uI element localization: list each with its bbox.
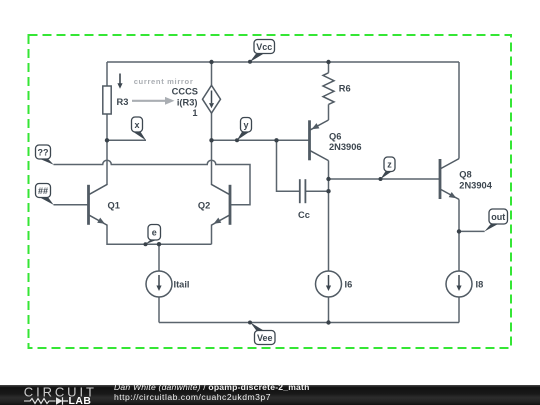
wire Q8 emitter down to I8 — [458, 199, 460, 271]
wire R3 top lead — [106, 62, 108, 86]
wire Q6 collector down to I6 — [328, 161, 330, 271]
junction Vcc flag attach — [248, 60, 252, 64]
wire Q1 collector to node x — [106, 140, 108, 184]
node flag z — [380, 157, 395, 179]
svg-text:LAB: LAB — [69, 396, 92, 405]
svg-text:CCCS: CCCS — [172, 87, 198, 97]
wire Vee rail — [159, 322, 459, 324]
svg-text:Cc: Cc — [298, 210, 310, 220]
annotation arrow current mirror — [132, 97, 175, 105]
wire I8 bottom lead — [458, 297, 460, 323]
svg-text:current mirror: current mirror — [134, 77, 194, 86]
footer bar — [0, 385, 540, 405]
svg-text:2N3904: 2N3904 — [459, 181, 492, 191]
wire Q8 collector to Vcc rail — [458, 62, 460, 159]
junction z flag attach — [379, 177, 383, 181]
svg-text:Q1: Q1 — [108, 200, 120, 210]
wire node y to Q6 base — [212, 139, 310, 141]
node flag y — [237, 118, 252, 141]
node flag out — [484, 209, 507, 232]
wire R6 top lead — [328, 62, 330, 73]
CircuitLab logo — [22, 385, 96, 405]
wire node out stub — [459, 230, 485, 232]
svg-text:1: 1 — [192, 108, 197, 118]
svg-text:y: y — [243, 120, 248, 130]
node flag Vee — [250, 322, 275, 344]
transistor Q8 (NPN 2N3904) — [440, 159, 493, 200]
svg-text:Q8: Q8 — [459, 169, 471, 179]
wire R6 bottom to Q6 emitter — [328, 104, 330, 120]
svg-text:Q6: Q6 — [329, 132, 341, 142]
svg-text:e: e — [152, 228, 157, 238]
credit text — [114, 383, 310, 402]
svg-text:i(R3): i(R3) — [177, 97, 198, 107]
svg-text:2N3906: 2N3906 — [329, 142, 362, 152]
junction node z at Q6 collector — [326, 177, 330, 181]
junction Vcc-CCCS — [209, 60, 213, 64]
svg-text:z: z — [387, 160, 392, 170]
wire Vcc rail — [107, 61, 459, 63]
svg-text:R6: R6 — [339, 84, 351, 94]
wire Cc right lead to Q6 collector — [305, 190, 328, 192]
node flag Vcc — [250, 40, 275, 63]
node flag x — [132, 117, 147, 140]
wire node z (Q6 collector to Q8 base) — [329, 178, 441, 180]
current source Itail — [146, 271, 190, 297]
svg-text:R3: R3 — [117, 97, 129, 107]
junction e flag attach — [144, 242, 148, 246]
transistor Q6 (PNP 2N3906) — [310, 120, 362, 161]
svg-text:I6: I6 — [345, 279, 353, 289]
wire CCCS bottom lead to node y — [211, 113, 213, 140]
wire Itail bottom lead — [158, 297, 160, 323]
svg-text:Itail: Itail — [174, 279, 190, 289]
svg-text:Vee: Vee — [257, 333, 273, 343]
wire node e (emitters of Q1,Q2) — [107, 225, 212, 244]
junction Vee-I6 — [326, 320, 330, 324]
CCCS dependent source I1 — [172, 85, 221, 118]
capacitor Cc — [298, 179, 310, 220]
svg-text:##: ## — [38, 186, 48, 196]
svg-text:I8: I8 — [476, 279, 484, 289]
wire ## input to Q1 base — [54, 204, 89, 206]
junction e-Itail — [157, 242, 161, 246]
node flag e — [145, 225, 160, 245]
node flag ## — [36, 184, 54, 205]
wire Itail top lead — [158, 244, 160, 271]
junction Cc branch — [274, 138, 278, 142]
resistor R6 — [323, 73, 351, 105]
wire Q2 collector to node y — [211, 140, 213, 184]
current source I8 — [446, 271, 483, 297]
junction Vcc-R6 — [326, 60, 330, 64]
resistor R3 — [103, 86, 129, 114]
schematic boundary (green dashed) — [29, 35, 512, 348]
transistor Q1 — [89, 184, 120, 225]
wire ?? input to Q2 base (with hops) — [54, 160, 251, 205]
wire node x stub — [107, 139, 146, 141]
current source I6 — [316, 271, 353, 297]
node flag ?? — [36, 145, 54, 165]
transistor Q2 — [198, 184, 230, 225]
svg-text:??: ?? — [38, 147, 49, 157]
svg-text:out: out — [491, 212, 505, 222]
junction node x — [105, 138, 109, 142]
junction Cc-Q6 collector — [326, 189, 330, 193]
svg-text:x: x — [134, 120, 139, 130]
wire I6 bottom lead — [328, 297, 330, 323]
junction Vee flag attach — [248, 321, 252, 325]
current direction arrow at R3 — [117, 74, 122, 89]
junction node y — [209, 138, 213, 142]
junction y flag attach — [235, 138, 239, 142]
wire Cc branch from node y wire — [277, 140, 300, 191]
junction node out — [457, 229, 461, 233]
wire R3 bottom lead to node x — [106, 114, 108, 140]
wire CCCS top lead — [211, 62, 213, 85]
svg-text:Vcc: Vcc — [256, 42, 272, 52]
svg-text:Q2: Q2 — [198, 200, 210, 210]
